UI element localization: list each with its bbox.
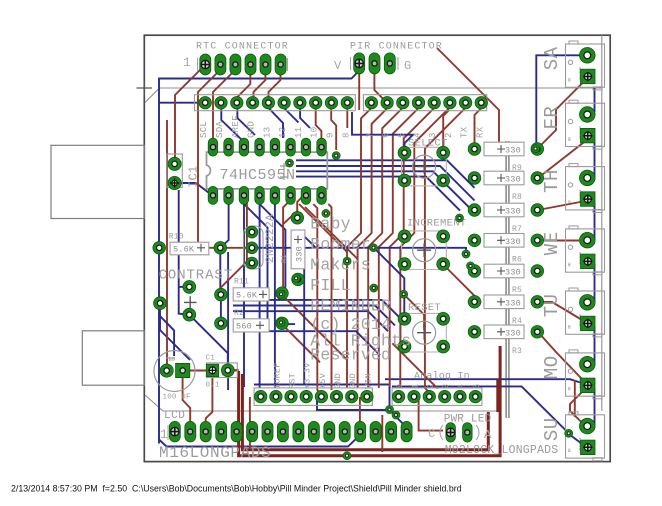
pad S3-RESET bbox=[398, 312, 411, 325]
wire bbox=[536, 55, 580, 148]
pad LCD-6 bbox=[247, 421, 258, 442]
svg-text:2: 2 bbox=[426, 384, 436, 389]
wire bbox=[296, 171, 475, 213]
svg-text:C: C bbox=[428, 427, 435, 441]
via bbox=[292, 274, 300, 282]
svg-text:RST: RST bbox=[288, 373, 298, 389]
wire bbox=[159, 315, 174, 356]
wire bbox=[206, 377, 213, 425]
wire bbox=[538, 201, 588, 211]
pad IC1-14 bbox=[239, 138, 249, 156]
svg-text:330: 330 bbox=[505, 175, 521, 185]
svg-text:100 UF: 100 UF bbox=[163, 394, 191, 402]
resistor R2 560 bbox=[233, 309, 269, 332]
wire bbox=[256, 248, 466, 254]
pad R8-2 bbox=[531, 172, 544, 185]
svg-text:R4: R4 bbox=[512, 317, 522, 326]
pad IC1-11 bbox=[286, 138, 296, 156]
wire bbox=[159, 435, 361, 447]
via bbox=[286, 159, 294, 167]
via bbox=[343, 452, 351, 460]
svg-text:MO: MO bbox=[541, 355, 563, 379]
pad LCD-12 bbox=[339, 421, 350, 442]
svg-text:AREF: AREF bbox=[231, 115, 241, 138]
svg-text:5.6K: 5.6K bbox=[236, 291, 258, 301]
power jack tab bbox=[82, 331, 144, 385]
wire bbox=[594, 264, 596, 302]
label VIN bbox=[363, 373, 373, 389]
pad hdr-AREF bbox=[231, 97, 243, 109]
connector X-TU outline bbox=[541, 288, 605, 337]
wire bbox=[283, 211, 297, 224]
pad R9-1 bbox=[468, 143, 481, 156]
svg-text:E9: E9 bbox=[169, 357, 175, 363]
label A3 bbox=[441, 384, 451, 389]
pad IC1-13 bbox=[255, 138, 264, 156]
pad POT-1 bbox=[183, 281, 196, 294]
pad IC1-7 bbox=[301, 186, 311, 204]
pad hdr-7 bbox=[365, 97, 377, 109]
pad R10-2 bbox=[214, 242, 227, 255]
pad RTC-4 bbox=[245, 54, 256, 75]
header analog outline bbox=[392, 371, 482, 406]
wire bbox=[374, 70, 390, 106]
wire bbox=[220, 295, 222, 324]
svg-text:WE: WE bbox=[541, 231, 563, 255]
wire bbox=[160, 303, 190, 360]
label RX bbox=[475, 126, 485, 138]
pad hdr-RX bbox=[475, 97, 487, 109]
svg-text:8: 8 bbox=[341, 132, 351, 138]
pad S3-RESET bbox=[398, 340, 411, 353]
wire bbox=[389, 386, 391, 409]
pad WE-screw bbox=[581, 254, 596, 269]
label RST bbox=[288, 373, 298, 389]
svg-text:11: 11 bbox=[294, 127, 304, 138]
pad RTC-5 bbox=[260, 54, 271, 75]
pad hdr-10 bbox=[310, 97, 322, 109]
wire bbox=[317, 400, 407, 428]
connector X-SA outline bbox=[541, 41, 605, 90]
pad LCD-4 bbox=[216, 421, 227, 442]
via bbox=[400, 290, 408, 298]
wire bbox=[331, 108, 336, 150]
pad R10-1 bbox=[153, 242, 166, 255]
svg-text:TX: TX bbox=[460, 126, 470, 138]
wire bbox=[228, 369, 239, 371]
svg-text:R10: R10 bbox=[169, 233, 184, 242]
pad MO-ring bbox=[580, 356, 596, 372]
label IOREF bbox=[272, 362, 282, 389]
svg-text:NO: NO bbox=[568, 262, 572, 266]
wire bbox=[221, 108, 244, 142]
svg-text:330: 330 bbox=[505, 146, 521, 156]
svg-text:Baby: Baby bbox=[310, 215, 350, 234]
svg-text:PILL: PILL bbox=[310, 276, 350, 295]
wire bbox=[368, 108, 402, 388]
pad RTC-3 bbox=[230, 54, 241, 75]
wire bbox=[175, 183, 179, 187]
svg-text:R2: R2 bbox=[234, 309, 244, 318]
wire bbox=[233, 306, 395, 326]
svg-text:330: 330 bbox=[505, 207, 521, 217]
pad IC1-9 bbox=[317, 138, 327, 156]
via bbox=[467, 262, 475, 270]
resistor R9 330 bbox=[484, 142, 524, 173]
wire bbox=[358, 70, 360, 110]
pad hdr-12 bbox=[278, 97, 290, 109]
pad SU-screw bbox=[581, 440, 596, 455]
svg-text:M16LONGPADS: M16LONGPADS bbox=[159, 444, 271, 462]
wire bbox=[574, 380, 576, 417]
label 7 bbox=[365, 132, 375, 138]
header power outline bbox=[254, 388, 372, 406]
label 11 bbox=[294, 127, 304, 138]
pad hdr-6 bbox=[381, 97, 393, 109]
pad hdr-GND bbox=[246, 97, 258, 109]
pad E9-minus bbox=[160, 364, 173, 377]
svg-text:SA: SA bbox=[541, 46, 563, 70]
wire bbox=[316, 108, 322, 138]
LED PWR_LED bbox=[428, 414, 558, 458]
wire bbox=[233, 311, 388, 331]
label A0 bbox=[395, 384, 405, 389]
pad S1-SELECT bbox=[437, 174, 450, 187]
svg-text:G: G bbox=[404, 59, 411, 73]
wire bbox=[305, 207, 358, 259]
pad hdr-13 bbox=[262, 97, 274, 109]
via bbox=[392, 411, 400, 419]
svg-text:10: 10 bbox=[310, 127, 320, 138]
svg-text:R1: R1 bbox=[281, 254, 289, 263]
wire bbox=[594, 140, 596, 178]
origin cross bbox=[137, 81, 153, 96]
pad hdr-5 bbox=[397, 97, 409, 109]
connector X-WE outline bbox=[541, 226, 605, 275]
label SDA bbox=[215, 121, 225, 138]
svg-text:5: 5 bbox=[472, 384, 482, 389]
pad R1-2 bbox=[292, 273, 305, 286]
wire bbox=[198, 70, 220, 248]
svg-text:3: 3 bbox=[441, 384, 451, 389]
wire bbox=[297, 197, 302, 217]
arduino tDocu outline bbox=[145, 35, 602, 411]
header JP digital 1 outline bbox=[195, 95, 356, 111]
svg-text:6: 6 bbox=[381, 132, 391, 138]
pad hdr-8 bbox=[341, 97, 353, 109]
wire bbox=[538, 302, 588, 324]
connector LCD label bbox=[159, 410, 271, 462]
pad hdr-TX bbox=[459, 97, 471, 109]
wire bbox=[328, 204, 331, 390]
svg-text:RTC CONNECTOR: RTC CONNECTOR bbox=[196, 42, 289, 53]
connector RTC_CONNECTOR bbox=[183, 42, 289, 72]
label 8 bbox=[341, 132, 351, 138]
wire bbox=[284, 108, 299, 123]
label 13 bbox=[262, 127, 272, 138]
pad SU-ring bbox=[580, 418, 596, 434]
svg-text:NO: NO bbox=[568, 325, 572, 329]
wire bbox=[437, 48, 499, 147]
via bbox=[565, 429, 573, 437]
via bbox=[370, 284, 378, 292]
svg-text:GND: GND bbox=[333, 373, 343, 389]
pad LCD-7 bbox=[262, 421, 273, 442]
board outline bbox=[144, 35, 610, 461]
pad WE-ring bbox=[580, 232, 596, 248]
wire bbox=[359, 397, 361, 425]
label +5V bbox=[318, 372, 328, 389]
resistor R11 5.6K bbox=[233, 278, 269, 302]
wire bbox=[570, 386, 588, 426]
label 2 bbox=[444, 132, 454, 138]
wire bbox=[296, 166, 475, 201]
wire bbox=[282, 295, 348, 361]
pad R3-2 bbox=[531, 326, 544, 339]
svg-text:1: 1 bbox=[183, 55, 191, 70]
connector X-TH outline bbox=[541, 164, 605, 213]
wire bbox=[379, 108, 419, 388]
pad R11-2 bbox=[276, 287, 289, 300]
wire bbox=[183, 377, 191, 425]
wire bbox=[313, 204, 321, 394]
pad R2-1 bbox=[215, 317, 228, 330]
svg-text:12: 12 bbox=[278, 127, 288, 138]
svg-text:0: 0 bbox=[395, 384, 405, 389]
pad TU-screw bbox=[581, 316, 596, 331]
svg-text:0.1: 0.1 bbox=[206, 382, 220, 390]
svg-text:5: 5 bbox=[397, 132, 407, 138]
silkscreen text copyright bbox=[310, 315, 411, 365]
pad SA-ring bbox=[580, 48, 596, 64]
wire bbox=[296, 160, 475, 188]
pad TU-ring bbox=[580, 295, 596, 311]
pad R3-1 bbox=[468, 326, 481, 339]
pad JP1-2 bbox=[168, 157, 181, 170]
wire bbox=[300, 108, 310, 128]
wire bbox=[274, 200, 276, 388]
via bbox=[277, 319, 285, 327]
pad JP1-1 bbox=[168, 176, 181, 189]
svg-text:REMINDER: REMINDER bbox=[310, 297, 391, 316]
svg-text:NO: NO bbox=[568, 386, 572, 390]
pad hdr-SCL bbox=[199, 97, 211, 109]
pad IC1-2 bbox=[224, 186, 234, 204]
svg-text:PIR CONNECTOR: PIR CONNECTOR bbox=[350, 42, 443, 53]
pad LCD-14 bbox=[370, 421, 381, 442]
pad TH-ring bbox=[580, 170, 596, 186]
pad LCD-2 bbox=[185, 421, 196, 442]
connector JP1 outline bbox=[167, 154, 183, 188]
silkscreen text Baby Boomer Makers PILL REMINDER bbox=[310, 215, 391, 316]
pad IC1-15 bbox=[224, 138, 234, 156]
pad LCD-11 bbox=[324, 421, 335, 442]
connector PIR_CONNECTOR bbox=[334, 42, 443, 74]
via bbox=[386, 406, 394, 414]
pad R5-1 bbox=[468, 265, 481, 278]
label 9 bbox=[326, 132, 336, 138]
pad S2-INCREMENT bbox=[437, 230, 450, 243]
via bbox=[370, 244, 378, 252]
label A2 bbox=[426, 384, 436, 389]
wire bbox=[496, 380, 499, 412]
label 5 bbox=[397, 132, 407, 138]
resistor R3 330 bbox=[484, 325, 524, 356]
wire bbox=[281, 293, 283, 300]
wire bbox=[282, 324, 320, 362]
connector X-SU outline bbox=[541, 412, 605, 461]
pad R2-2 bbox=[276, 317, 289, 330]
pad pwr-GND bbox=[330, 390, 342, 402]
wire bbox=[244, 204, 380, 355]
wire bbox=[358, 108, 388, 388]
status bar text bbox=[11, 484, 462, 494]
wire bbox=[594, 88, 596, 112]
wire bbox=[352, 112, 413, 146]
pad IC1-8 bbox=[317, 186, 327, 204]
resistor R5 330 bbox=[484, 264, 524, 295]
pad S1-SELECT bbox=[437, 146, 450, 159]
wire bbox=[269, 108, 284, 138]
pad LCD-10 bbox=[308, 421, 319, 442]
pad POT-3 bbox=[183, 308, 196, 321]
wire bbox=[179, 286, 190, 288]
pad S2-INCREMENT bbox=[398, 230, 411, 243]
wire bbox=[243, 204, 245, 387]
wire bbox=[175, 183, 213, 196]
svg-text:TH: TH bbox=[541, 169, 563, 193]
resistor R8 330 bbox=[484, 171, 524, 202]
svg-text:Analog In: Analog In bbox=[414, 371, 470, 383]
pad R6-2 bbox=[531, 234, 544, 247]
pad Q1-C bbox=[246, 257, 258, 269]
wire bbox=[175, 66, 204, 162]
pad R1-1 bbox=[291, 212, 304, 225]
pad LED-C bbox=[446, 423, 456, 443]
pad FR-screw bbox=[581, 128, 596, 143]
pad A0 bbox=[392, 390, 404, 402]
pad LED-A bbox=[463, 423, 473, 443]
pad C1-1 bbox=[206, 364, 218, 376]
resistor R7 330 bbox=[484, 203, 524, 234]
label GND bbox=[247, 121, 257, 138]
pad R6-1 bbox=[468, 234, 481, 247]
pad IC1-5 bbox=[270, 186, 280, 204]
svg-text:13: 13 bbox=[262, 127, 272, 138]
connector X-MO outline bbox=[541, 350, 605, 399]
svg-text:V: V bbox=[334, 59, 342, 73]
wire bbox=[159, 102, 204, 104]
wire bbox=[226, 247, 246, 249]
pad LCD-16 bbox=[401, 421, 412, 442]
label A5 bbox=[472, 384, 482, 389]
label 4 bbox=[413, 132, 423, 138]
pad PIR-3 bbox=[384, 53, 395, 74]
pad IC1-3 bbox=[239, 186, 249, 204]
pad TH-screw bbox=[581, 192, 596, 207]
svg-text:9: 9 bbox=[326, 132, 336, 138]
pad R7-1 bbox=[468, 204, 481, 217]
pad SA-screw bbox=[581, 69, 596, 84]
svg-text:5.6K: 5.6K bbox=[173, 245, 195, 255]
pad Q1-B bbox=[246, 242, 258, 254]
via bbox=[322, 209, 330, 217]
resistor R6 330 bbox=[484, 234, 524, 265]
svg-text:7: 7 bbox=[365, 132, 375, 138]
pushbutton S1-SELECT bbox=[402, 138, 448, 186]
header JP digital 2 outline bbox=[363, 95, 486, 111]
pad IC1-16 bbox=[208, 138, 218, 156]
pad R4-1 bbox=[468, 296, 481, 309]
pad S3-RESET bbox=[437, 312, 450, 325]
svg-text:+5V: +5V bbox=[318, 372, 328, 389]
via bbox=[462, 250, 470, 258]
wire bbox=[303, 235, 316, 248]
svg-text:NO: NO bbox=[568, 137, 572, 141]
wire bbox=[254, 70, 266, 99]
wire bbox=[594, 388, 596, 425]
pad hdr-3 bbox=[428, 97, 440, 109]
label SCL bbox=[199, 121, 209, 138]
svg-text:R8: R8 bbox=[512, 193, 522, 202]
svg-text:RESET: RESET bbox=[408, 302, 441, 314]
svg-text:SU: SU bbox=[541, 417, 563, 441]
pad pwr-+5V bbox=[315, 390, 327, 402]
pad LCD-15 bbox=[386, 421, 397, 442]
wire bbox=[392, 386, 582, 443]
wire bbox=[237, 70, 250, 97]
svg-text:R5: R5 bbox=[512, 286, 522, 295]
transistor Q1 2N2222A bbox=[244, 214, 278, 269]
svg-text:330: 330 bbox=[505, 328, 521, 338]
pad pwr-+3.3V bbox=[300, 390, 312, 402]
wire bbox=[260, 204, 286, 292]
svg-text:Makers: Makers bbox=[310, 256, 371, 275]
resistor R4 330 bbox=[484, 295, 524, 326]
pad PIR-1 bbox=[354, 53, 365, 74]
svg-text:IC1: IC1 bbox=[187, 165, 201, 188]
wire bbox=[390, 108, 435, 388]
wire bbox=[374, 248, 405, 318]
wire bbox=[443, 265, 481, 303]
wire bbox=[296, 177, 460, 211]
svg-text:CONTRAST: CONTRAST bbox=[159, 268, 233, 284]
resistor R10 5.6K bbox=[169, 233, 209, 255]
wire bbox=[179, 190, 190, 315]
pad S1-SELECT bbox=[398, 174, 411, 187]
svg-text:R3: R3 bbox=[512, 347, 522, 356]
svg-text:1: 1 bbox=[410, 384, 420, 389]
wire bbox=[538, 240, 579, 242]
wire bbox=[299, 204, 347, 252]
pad LCD-13 bbox=[355, 421, 366, 442]
pad A1 bbox=[408, 390, 420, 402]
pad E9-plus bbox=[176, 363, 190, 377]
pad pwr-IOREF bbox=[270, 390, 282, 402]
wire bbox=[183, 370, 212, 372]
svg-text:560: 560 bbox=[236, 322, 252, 332]
pad RTC-6 bbox=[275, 54, 286, 75]
svg-text:M02LOCK_LONGPADS: M02LOCK_LONGPADS bbox=[445, 444, 559, 457]
connector X-FR outline bbox=[541, 100, 605, 149]
pad IC1-12 bbox=[270, 138, 280, 156]
pad pwr-GND bbox=[346, 390, 358, 402]
wire bbox=[221, 204, 229, 247]
pad MO-screw bbox=[581, 378, 596, 393]
svg-text:SDA: SDA bbox=[215, 121, 225, 138]
pad S2-INCREMENT bbox=[437, 258, 450, 271]
label TX bbox=[460, 126, 470, 138]
